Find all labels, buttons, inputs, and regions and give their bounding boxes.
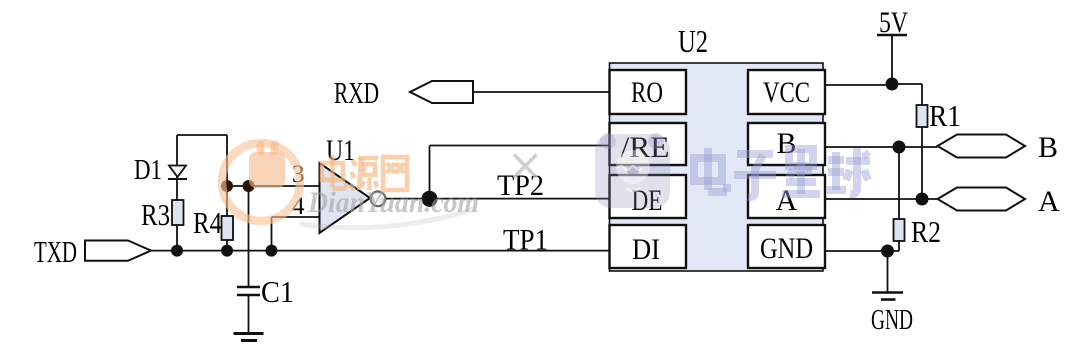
connector A (938, 185, 1061, 218)
wire TXD/TP1 net (151, 250, 610, 252)
星 (789, 149, 813, 166)
pin box RO (610, 70, 687, 114)
svg-text:C1: C1 (261, 274, 294, 309)
power 5V (877, 6, 908, 84)
pin box /RE (610, 123, 687, 165)
wire top jumper D1 to R4 (177, 134, 227, 136)
node R4-pin3 junction (221, 180, 233, 192)
node U1 output junction (422, 191, 438, 207)
wire RO to RXD (473, 91, 610, 93)
wire B net (825, 147, 938, 251)
watermark dianyuan plug icon (249, 141, 285, 188)
wire VCC to 5V (825, 84, 892, 86)
node 5V-VCC junction (886, 78, 899, 91)
svg-text:GND: GND (760, 232, 813, 265)
svg-text:D1: D1 (134, 154, 162, 186)
ground (C1) (234, 334, 264, 341)
ground (GND) (871, 293, 913, 337)
svg-text:TP1: TP1 (503, 224, 548, 257)
wire A net (825, 198, 938, 200)
svg-text:A: A (1038, 185, 1060, 218)
pin box DE (610, 175, 687, 218)
watermark dianyuan ring (222, 143, 300, 221)
resistor R2 (894, 214, 942, 249)
resistor R1 (917, 98, 962, 133)
node B junction (893, 141, 906, 154)
wire R4 branch vertical (226, 135, 228, 251)
connector RXD (334, 75, 473, 110)
svg-text:GND: GND (871, 304, 913, 336)
node C1-pin3 junction (243, 180, 255, 192)
node TXD-R3 junction (171, 245, 183, 257)
wire C1 branch (248, 186, 250, 333)
pin box DI (610, 225, 687, 268)
svg-text:RXD: RXD (334, 75, 379, 110)
connector TXD (34, 234, 151, 269)
svg-text:R4: R4 (193, 205, 222, 240)
wire pin 4 input (272, 217, 320, 251)
diode D1 (134, 154, 187, 186)
node TXD-R4 junction (221, 245, 233, 257)
svg-text:B: B (1038, 131, 1058, 164)
wire pin 3 input (227, 185, 320, 187)
resistor R4 (193, 205, 233, 240)
wire /RE branch (430, 146, 611, 199)
pin box VCC (748, 70, 825, 114)
svg-text:R3: R3 (141, 197, 170, 232)
svg-text:R1: R1 (929, 98, 961, 133)
wire 5V to R1 (892, 84, 922, 199)
网 (383, 157, 407, 190)
svg-text:A: A (776, 184, 798, 217)
svg-text:5V: 5V (879, 6, 908, 39)
子 (737, 150, 773, 158)
pin box GND (748, 225, 825, 268)
watermark text 电源网 (322, 155, 407, 190)
node GND junction (881, 245, 894, 258)
resistor R3 (141, 197, 184, 232)
connector B (938, 131, 1059, 164)
IC U2 body (610, 23, 824, 271)
wire GND net (825, 251, 899, 292)
op-amp / inverter U1 (320, 134, 386, 233)
pin box B (748, 123, 825, 165)
node TXD-pin4 junction (266, 245, 278, 257)
wire U1 output / TP2 (386, 198, 610, 200)
svg-text:DI: DI (632, 233, 660, 266)
pin box A (748, 175, 825, 218)
svg-text:TP2: TP2 (497, 169, 544, 202)
wire D1 branch vertical (176, 135, 178, 251)
node A junction (916, 193, 929, 206)
watermark swoosh (300, 209, 474, 228)
svg-text:TXD: TXD (34, 234, 77, 269)
watermark text 电子星球 (694, 148, 870, 197)
svg-text:R2: R2 (911, 214, 941, 249)
watermark star logo (595, 133, 670, 208)
源 (352, 160, 356, 166)
svg-text:U2: U2 (678, 23, 708, 59)
svg-text:RO: RO (631, 76, 663, 109)
svg-text:VCC: VCC (763, 76, 810, 109)
watermark x mark (514, 155, 537, 178)
球 (828, 156, 844, 164)
capacitor C1 (237, 274, 294, 309)
电 (322, 163, 343, 180)
电 (694, 158, 722, 181)
